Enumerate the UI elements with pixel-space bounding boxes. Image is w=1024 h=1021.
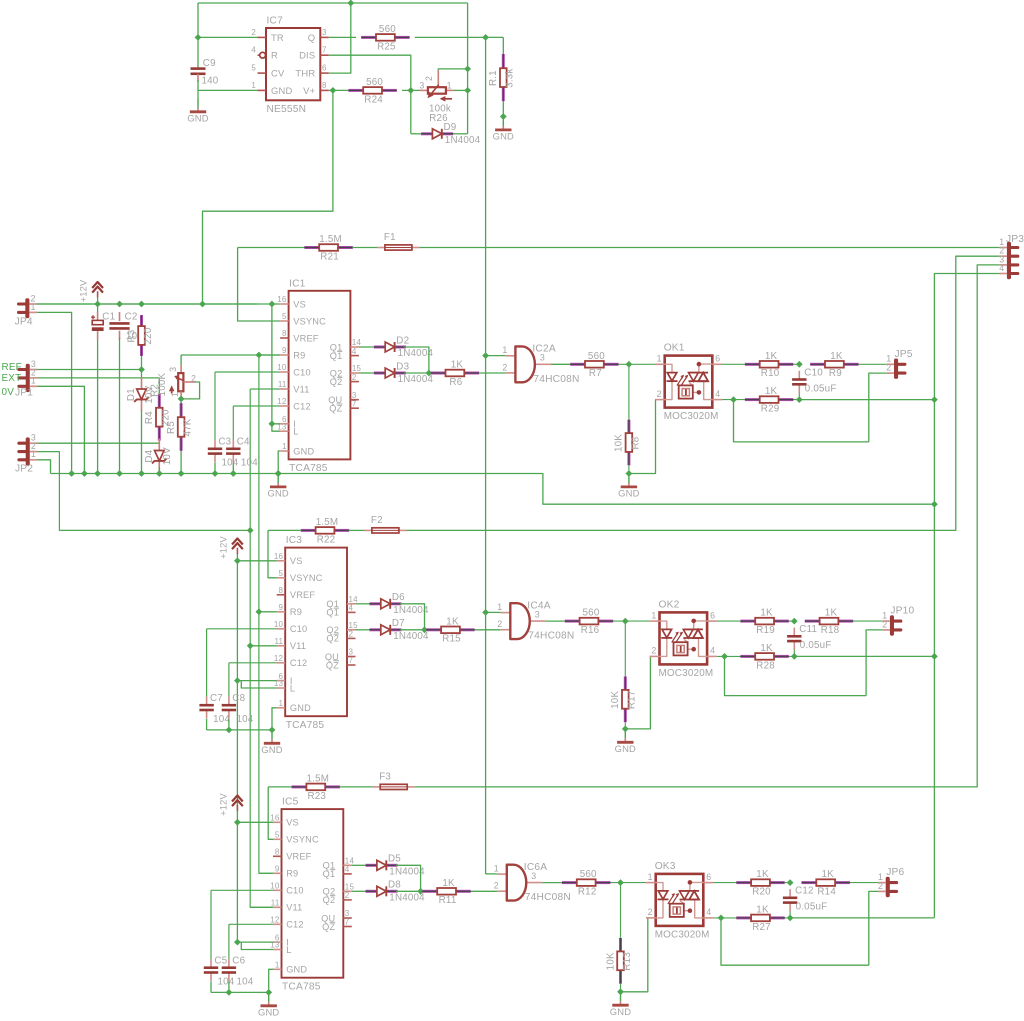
- svg-text:C1: C1: [102, 311, 115, 322]
- wire OK pin4 row: [717, 655, 795, 657]
- junction: [482, 34, 489, 41]
- junction: [234, 819, 241, 826]
- svg-text:C6: C6: [232, 956, 245, 967]
- resistor R20: [736, 869, 784, 897]
- svg-text:EXT: EXT: [2, 373, 22, 384]
- svg-text:2: 2: [882, 619, 887, 629]
- svg-text:GND: GND: [293, 446, 314, 456]
- wire pin4 row to JP3.4 column: [799, 399, 934, 401]
- wire JP2 pin1 to GND rail: [37, 460, 50, 474]
- svg-text:6: 6: [715, 354, 720, 364]
- svg-text:5: 5: [282, 312, 287, 321]
- wire JP pin2: [866, 630, 883, 696]
- resistor R17: [610, 676, 638, 722]
- svg-text:R11: R11: [439, 895, 457, 906]
- svg-text:R9: R9: [290, 607, 302, 617]
- svg-text:74HC08N: 74HC08N: [525, 892, 571, 903]
- svg-text:F2: F2: [371, 515, 383, 526]
- wire R23 left: [268, 786, 293, 788]
- wire cap B to rail: [228, 719, 230, 730]
- resistor R14: [802, 869, 850, 897]
- capacitor C4: [226, 437, 258, 469]
- wire +12V rail IC5: [237, 821, 273, 823]
- svg-text:6: 6: [322, 64, 327, 73]
- wire V11 pin IC1: [250, 388, 280, 390]
- junction: [730, 396, 737, 403]
- capacitor C7: [199, 693, 230, 725]
- wire THR net: [329, 3, 351, 73]
- wire +12V to rail: [97, 297, 99, 312]
- svg-text:R4: R4: [144, 411, 155, 424]
- svg-text:11: 11: [274, 637, 283, 646]
- svg-text:TCA785: TCA785: [282, 982, 321, 993]
- svg-text:VS: VS: [290, 556, 303, 566]
- svg-text:+12V: +12V: [79, 279, 89, 302]
- wire EXT down: [158, 392, 160, 394]
- wire R13 top: [620, 883, 622, 938]
- junction: [931, 653, 938, 660]
- wire pot R2 wiper loop: [181, 382, 200, 399]
- svg-text:3: 3: [322, 28, 327, 37]
- svg-text:6: 6: [706, 872, 711, 882]
- wire Q1 to D2: [359, 346, 374, 348]
- svg-text:L: L: [293, 427, 298, 437]
- wire GND rail channel 1: [51, 474, 935, 505]
- wire I/L tie IC1: [272, 304, 280, 424]
- svg-text:Q1: Q1: [330, 351, 343, 361]
- svg-text:R22: R22: [317, 534, 336, 545]
- svg-text:2: 2: [502, 362, 507, 372]
- wire to JP pin1: [850, 882, 879, 884]
- wire to JP pin1: [859, 363, 887, 365]
- junction: [138, 366, 145, 373]
- svg-text:R17: R17: [627, 691, 638, 710]
- resistor R27: [736, 905, 784, 933]
- net label REF: [2, 362, 22, 373]
- wire GND rail IC3: [207, 729, 272, 731]
- junction: [212, 470, 219, 477]
- svg-text:1K: 1K: [830, 351, 843, 362]
- svg-text:V+: V+: [303, 85, 315, 96]
- junction: [626, 470, 633, 477]
- svg-text:7: 7: [345, 918, 350, 927]
- resistor R10: [745, 351, 793, 379]
- fuse F1: [377, 232, 419, 250]
- junction: [617, 988, 624, 995]
- connector JP3: [999, 234, 1024, 279]
- resistor R11: [422, 878, 470, 906]
- connector JP2: [15, 433, 37, 475]
- wire OK pin6 row: [722, 363, 745, 365]
- wire GND pin IC5: [269, 969, 273, 992]
- svg-text:4: 4: [349, 604, 354, 613]
- svg-text:4: 4: [706, 907, 711, 917]
- junction: [931, 396, 938, 403]
- svg-text:IC6A: IC6A: [524, 862, 547, 873]
- svg-text:140: 140: [202, 76, 219, 87]
- svg-text:Q2: Q2: [323, 895, 336, 905]
- wire D5 to junction: [396, 865, 421, 891]
- resistor R7: [570, 351, 618, 379]
- svg-text:R8: R8: [630, 436, 641, 449]
- wire GND pin IC3: [272, 708, 277, 730]
- connector JP1: [15, 359, 37, 399]
- svg-text:5: 5: [275, 831, 280, 840]
- svg-text:1: 1: [282, 442, 287, 451]
- svg-text:VREF: VREF: [286, 852, 311, 862]
- resistor R13: [605, 938, 633, 984]
- svg-text:1.5M: 1.5M: [319, 234, 342, 245]
- svg-text:104: 104: [241, 458, 258, 469]
- wire R9 pin IC5: [259, 872, 273, 874]
- wire D9 anode: [411, 133, 421, 135]
- wire GND to OK pin2: [629, 400, 656, 474]
- wire R24 to pot R26: [402, 89, 420, 91]
- svg-text:104: 104: [237, 714, 254, 725]
- svg-text:1: 1: [31, 376, 36, 386]
- wire D9 cathode: [452, 133, 467, 135]
- wire IC7 GND pin to C9 column: [198, 89, 258, 91]
- svg-text:3: 3: [168, 367, 178, 372]
- svg-text:IC2A: IC2A: [532, 344, 555, 355]
- svg-text:C11: C11: [799, 624, 817, 635]
- svg-text:1K: 1K: [765, 386, 778, 397]
- supply +12V: [218, 793, 242, 816]
- junction: [199, 301, 206, 308]
- ground: [258, 992, 279, 1017]
- svg-text:Q1: Q1: [326, 608, 339, 618]
- svg-text:QZ: QZ: [326, 660, 339, 670]
- capacitor C12: [783, 886, 827, 913]
- svg-text:1.5M: 1.5M: [307, 774, 330, 785]
- capacitor C2: [109, 311, 143, 341]
- svg-text:R21: R21: [320, 251, 339, 262]
- wire Q1 to D5: [352, 864, 366, 866]
- junction: [464, 66, 471, 73]
- AND gate IC6A: [494, 862, 571, 903]
- svg-text:V11: V11: [293, 384, 309, 394]
- resistor R23: [292, 774, 340, 802]
- svg-text:560: 560: [580, 869, 597, 880]
- svg-text:1: 1: [279, 699, 284, 708]
- ground: [267, 474, 288, 499]
- wire R17 top: [624, 621, 626, 676]
- wire gate input1: [486, 611, 501, 613]
- junction: [617, 879, 624, 886]
- wire R3 to REF node: [141, 356, 143, 377]
- wire C12 pin IC1: [233, 405, 280, 407]
- svg-text:R14: R14: [817, 887, 836, 898]
- svg-text:C10: C10: [293, 367, 310, 377]
- svg-text:D2: D2: [396, 335, 409, 346]
- svg-text:C3: C3: [218, 437, 231, 448]
- svg-text:1K: 1K: [446, 616, 459, 627]
- svg-text:5: 5: [251, 64, 256, 73]
- wire D4 to GND rail: [158, 467, 160, 474]
- junction: [787, 879, 794, 886]
- svg-text:560: 560: [588, 351, 605, 362]
- junction: [269, 301, 276, 308]
- svg-text:GND: GND: [290, 703, 311, 713]
- svg-text:IC1: IC1: [289, 278, 306, 289]
- svg-text:8: 8: [322, 81, 327, 90]
- svg-text:VS: VS: [286, 818, 299, 828]
- junction: [791, 618, 798, 625]
- svg-text:C4: C4: [237, 437, 250, 448]
- svg-text:7: 7: [322, 46, 327, 55]
- wire VSYNC IC3: [268, 530, 277, 577]
- wire V11 pin IC5: [250, 906, 273, 908]
- svg-text:GND: GND: [267, 488, 288, 499]
- junction: [931, 501, 938, 508]
- svg-text:1N4004: 1N4004: [389, 892, 425, 903]
- wire JP4 pin1 down: [37, 312, 72, 473]
- wire pin4 jog to JP pin2: [734, 400, 869, 442]
- svg-text:2: 2: [424, 76, 434, 81]
- capacitor C6: [222, 956, 254, 988]
- svg-text:C9: C9: [203, 58, 216, 69]
- svg-text:2: 2: [251, 28, 256, 37]
- wire R23 to F3: [339, 786, 372, 788]
- svg-text:10: 10: [277, 363, 287, 372]
- wire C10 column IC3: [206, 629, 208, 697]
- wire pin4 jog to JP pin2: [725, 656, 867, 695]
- svg-text:1: 1: [648, 872, 653, 882]
- svg-text:10V: 10V: [162, 447, 173, 465]
- connector JP4: [15, 293, 37, 327]
- svg-text:VSYNC: VSYNC: [293, 316, 326, 326]
- svg-text:104: 104: [222, 458, 239, 469]
- wire V+ net: [329, 89, 349, 91]
- svg-text:VSYNC: VSYNC: [286, 835, 319, 845]
- svg-text:R24: R24: [364, 94, 383, 105]
- svg-text:C7: C7: [210, 693, 223, 704]
- wire JP2 pin3 to R4/D4 node: [37, 442, 159, 444]
- svg-text:16: 16: [270, 814, 280, 823]
- ground: [610, 992, 631, 1017]
- resistor R8: [614, 420, 642, 466]
- wire to snubber cap: [789, 620, 795, 622]
- junction: [247, 527, 254, 534]
- wire D3 to junction: [404, 372, 429, 374]
- svg-text:0.05uF: 0.05uF: [796, 902, 828, 913]
- svg-text:R27: R27: [752, 922, 771, 933]
- junction: [116, 301, 123, 308]
- wire I/L tie IC3: [237, 680, 276, 682]
- ground: [615, 729, 636, 754]
- wire GND pin IC1: [278, 451, 280, 474]
- wire GND to OK pin2: [621, 918, 648, 992]
- svg-text:GND: GND: [261, 744, 282, 755]
- svg-text:R9: R9: [829, 368, 842, 379]
- svg-text:6: 6: [710, 610, 715, 620]
- junction: [234, 939, 241, 946]
- svg-text:11: 11: [278, 380, 287, 389]
- capacitor C5: [204, 956, 235, 988]
- wire to JP pin1: [853, 620, 882, 622]
- svg-text:R25: R25: [377, 41, 396, 52]
- junction: [195, 34, 202, 41]
- junction: [230, 470, 237, 477]
- wire R22 to F2: [349, 529, 365, 531]
- svg-text:THR: THR: [295, 68, 315, 79]
- svg-text:R16: R16: [581, 625, 600, 636]
- junction: [94, 470, 101, 477]
- wire snubber cap down: [789, 911, 791, 918]
- svg-text:12: 12: [274, 654, 284, 663]
- wire TR net left vertical: [197, 3, 199, 68]
- wire EXT net: [37, 378, 159, 393]
- junction: [275, 470, 282, 477]
- svg-text:7: 7: [352, 399, 357, 408]
- svg-text:L: L: [290, 683, 295, 693]
- svg-text:F1: F1: [384, 232, 396, 243]
- fuse F2: [364, 515, 406, 533]
- svg-text:IC4A: IC4A: [527, 601, 550, 612]
- svg-text:R28: R28: [756, 660, 775, 671]
- svg-text:Q2: Q2: [330, 377, 343, 387]
- svg-text:16: 16: [274, 552, 284, 561]
- IC IC7 NE555N: [251, 16, 328, 116]
- capacitor C11: [787, 624, 831, 651]
- svg-text:GND: GND: [493, 131, 514, 142]
- svg-text:5: 5: [279, 569, 284, 578]
- svg-text:GND: GND: [187, 112, 208, 123]
- svg-text:JP10: JP10: [890, 606, 914, 617]
- svg-text:C10: C10: [290, 624, 307, 634]
- svg-text:VREF: VREF: [290, 590, 315, 600]
- wire C2 down: [119, 338, 121, 474]
- IC IC1 TCA785: [277, 278, 361, 474]
- svg-text:4: 4: [999, 263, 1004, 273]
- resistor R4: [144, 394, 172, 441]
- wire pin4 row to JP3.4 column: [794, 655, 934, 657]
- svg-text:VS: VS: [293, 299, 306, 309]
- connector JP5: [886, 349, 912, 379]
- svg-text:74HC08N: 74HC08N: [533, 374, 579, 385]
- ground: [187, 98, 208, 123]
- resistor R21: [304, 234, 352, 262]
- wire R8 bottom: [628, 466, 630, 474]
- junction: [156, 470, 163, 477]
- wire R9 shared column: [259, 355, 273, 873]
- wire gate input1: [486, 355, 506, 357]
- wire DIS net: [329, 55, 411, 134]
- svg-text:1K: 1K: [825, 608, 838, 619]
- diode D8: [366, 880, 426, 904]
- wire V11 shared column: [250, 389, 273, 907]
- svg-text:104: 104: [218, 977, 235, 988]
- svg-text:D3: D3: [396, 361, 409, 372]
- wire VSYNC IC1: [238, 248, 281, 322]
- svg-text:TCA785: TCA785: [286, 720, 325, 731]
- wire C12 column IC5: [228, 924, 230, 959]
- wire Q to R25: [329, 36, 356, 38]
- svg-text:12: 12: [270, 916, 280, 925]
- svg-text:1: 1: [251, 81, 256, 90]
- wire D6 to junction: [400, 604, 425, 630]
- diode D3: [374, 361, 434, 385]
- junction: [81, 470, 88, 477]
- wire R7 to OK: [619, 363, 656, 365]
- svg-text:JP6: JP6: [886, 867, 904, 878]
- junction: [787, 915, 794, 922]
- wire D7 to junction: [400, 629, 425, 631]
- svg-text:1K: 1K: [451, 360, 464, 371]
- svg-text:1N4004: 1N4004: [398, 348, 434, 359]
- svg-text:1: 1: [494, 864, 499, 874]
- wire R1 to GND: [502, 101, 504, 116]
- wire gate out to R7: [551, 363, 570, 365]
- wire gate out to R16: [546, 620, 565, 622]
- svg-text:D7: D7: [392, 618, 405, 629]
- wire C12 pin IC3: [229, 662, 277, 664]
- svg-text:104: 104: [213, 714, 230, 725]
- svg-text:1N4004: 1N4004: [445, 135, 481, 146]
- resistor R.1: [488, 54, 516, 101]
- svg-text:GND: GND: [286, 965, 307, 975]
- resistor R6: [431, 360, 479, 388]
- svg-text:7: 7: [349, 656, 354, 665]
- svg-text:1K: 1K: [756, 869, 769, 880]
- wire R21 to F1: [352, 247, 377, 249]
- wire cap A to rail: [206, 719, 208, 730]
- wire GND rail IC5: [211, 991, 269, 993]
- wire cap B to rail: [232, 463, 234, 474]
- resistor R29: [745, 386, 793, 414]
- resistor R15: [426, 616, 474, 644]
- svg-text:1: 1: [170, 392, 180, 397]
- svg-text:100K: 100K: [157, 372, 168, 396]
- svg-text:C8: C8: [232, 693, 245, 704]
- net label 0V: [2, 387, 15, 398]
- svg-text:2: 2: [497, 619, 502, 629]
- optocoupler OK1: [655, 343, 722, 423]
- svg-text:9: 9: [282, 346, 287, 355]
- net label EXT: [2, 373, 22, 384]
- potentiometer R26 100k: [419, 70, 453, 124]
- svg-text:560: 560: [379, 24, 396, 35]
- svg-text:GND: GND: [618, 488, 639, 499]
- svg-text:2: 2: [352, 373, 357, 382]
- junction: [178, 396, 185, 403]
- wire V+ down to rail: [203, 90, 333, 304]
- resistor R3: [126, 315, 154, 356]
- wire +12V rail IC1: [37, 303, 280, 305]
- wire R12 to OK: [610, 882, 646, 884]
- svg-text:1K: 1K: [822, 869, 835, 880]
- wire F3 to JP3 pin3 column: [415, 265, 1000, 787]
- junction: [116, 470, 123, 477]
- svg-text:R19: R19: [756, 625, 775, 636]
- wire F1 to JP3 pin1: [419, 247, 999, 249]
- wire Q2 to D7: [356, 629, 370, 631]
- junction: [500, 113, 507, 120]
- svg-text:10: 10: [274, 620, 284, 629]
- junction: [138, 470, 145, 477]
- svg-text:JP3: JP3: [1006, 234, 1024, 245]
- junction: [796, 361, 803, 368]
- wire REF net: [37, 369, 141, 371]
- wire to snubber cap: [793, 363, 799, 365]
- resistor R24: [348, 77, 396, 105]
- svg-text:4: 4: [345, 865, 350, 874]
- svg-text:L: L: [286, 945, 291, 955]
- svg-text:CV: CV: [271, 68, 285, 79]
- svg-text:R13: R13: [622, 952, 633, 971]
- svg-text:1K: 1K: [756, 905, 769, 916]
- junction: [226, 727, 233, 734]
